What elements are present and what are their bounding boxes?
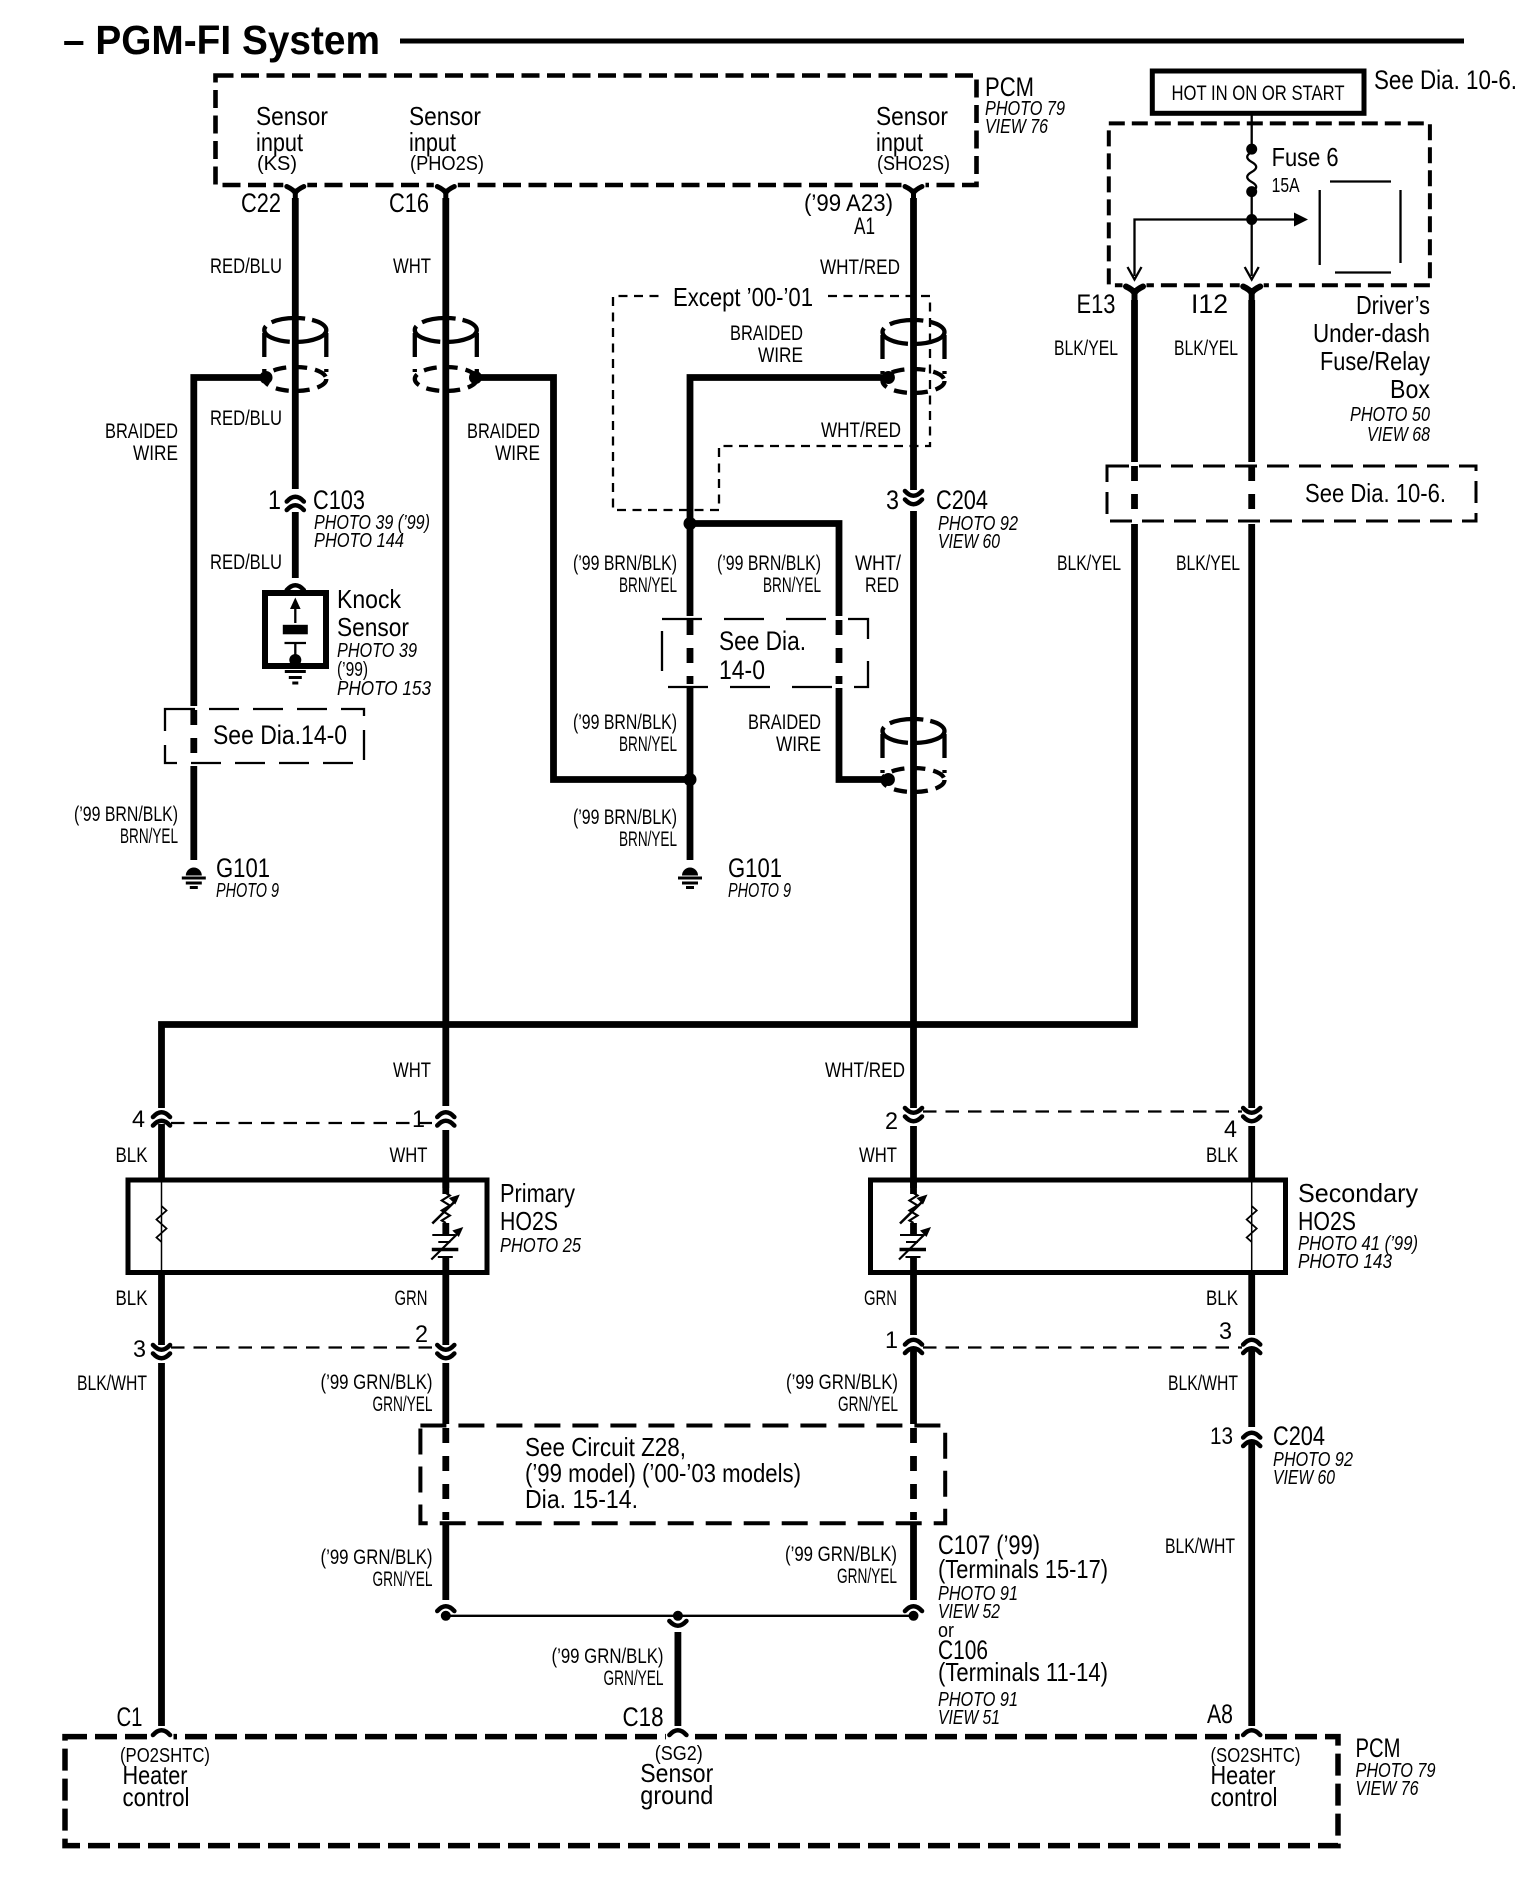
svg-text:VIEW 60: VIEW 60 — [938, 531, 1000, 553]
svg-text:BLK/YEL: BLK/YEL — [1174, 336, 1238, 360]
svg-text:(’99 GRN/BLK): (’99 GRN/BLK) — [321, 1545, 433, 1569]
svg-text:(’99 BRN/BLK): (’99 BRN/BLK) — [573, 710, 677, 734]
svg-text:2: 2 — [415, 1321, 428, 1348]
svg-text:BRN/YEL: BRN/YEL — [763, 573, 821, 597]
svg-text:control: control — [1211, 1782, 1278, 1812]
svg-text:See Dia.14-0: See Dia.14-0 — [213, 720, 347, 750]
svg-text:HO2S: HO2S — [500, 1206, 558, 1236]
svg-text:I12: I12 — [1191, 289, 1228, 319]
svg-text:15A: 15A — [1272, 175, 1301, 197]
svg-text:Under-dash: Under-dash — [1313, 318, 1430, 348]
svg-text:control: control — [123, 1782, 190, 1812]
svg-text:Except ’00-’01: Except ’00-’01 — [673, 282, 813, 312]
svg-text:Fuse 6: Fuse 6 — [1272, 142, 1339, 172]
svg-text:1: 1 — [268, 485, 281, 515]
svg-text:WHT/RED: WHT/RED — [825, 1058, 905, 1082]
svg-text:Driver’s: Driver’s — [1356, 290, 1430, 320]
svg-text:4: 4 — [1224, 1116, 1237, 1143]
svg-text:See Dia.: See Dia. — [719, 626, 806, 656]
svg-text:GRN/YEL: GRN/YEL — [373, 1567, 433, 1591]
svg-text:– PGM-FI System: – PGM-FI System — [63, 17, 380, 63]
svg-text:GRN: GRN — [395, 1286, 428, 1310]
svg-text:(’99 GRN/BLK): (’99 GRN/BLK) — [552, 1644, 664, 1668]
svg-text:VIEW 76: VIEW 76 — [1356, 1778, 1420, 1800]
svg-text:1: 1 — [412, 1106, 425, 1133]
svg-text:Dia. 15-14.: Dia. 15-14. — [525, 1484, 638, 1514]
svg-text:PHOTO 153: PHOTO 153 — [337, 678, 431, 700]
svg-text:(’99 GRN/BLK): (’99 GRN/BLK) — [321, 1370, 433, 1394]
svg-text:4: 4 — [132, 1106, 145, 1133]
svg-text:(’99 GRN/BLK): (’99 GRN/BLK) — [786, 1370, 898, 1394]
svg-text:HOT IN ON OR START: HOT IN ON OR START — [1172, 82, 1345, 105]
svg-text:GRN/YEL: GRN/YEL — [837, 1564, 897, 1588]
svg-text:GRN/YEL: GRN/YEL — [838, 1392, 898, 1416]
svg-text:RED: RED — [865, 573, 899, 597]
svg-text:(PHO2S): (PHO2S) — [410, 153, 484, 175]
svg-text:RED/BLU: RED/BLU — [210, 254, 282, 278]
svg-text:VIEW 60: VIEW 60 — [1273, 1467, 1335, 1489]
svg-text:C103: C103 — [313, 485, 365, 515]
svg-text:BLK: BLK — [116, 1143, 149, 1167]
svg-text:(’99 GRN/BLK): (’99 GRN/BLK) — [785, 1542, 897, 1566]
svg-text:BLK: BLK — [1206, 1143, 1239, 1167]
svg-text:PHOTO 144: PHOTO 144 — [314, 530, 404, 552]
svg-text:BLK/YEL: BLK/YEL — [1176, 551, 1240, 575]
svg-text:WIRE: WIRE — [133, 441, 178, 465]
svg-text:VIEW 76: VIEW 76 — [985, 116, 1049, 138]
svg-text:(SHO2S): (SHO2S) — [877, 153, 950, 175]
svg-text:(Terminals 15-17): (Terminals 15-17) — [938, 1554, 1108, 1584]
svg-text:(’99 A23): (’99 A23) — [804, 190, 893, 217]
svg-text:RED/BLU: RED/BLU — [210, 406, 282, 430]
svg-text:RED/BLU: RED/BLU — [210, 550, 282, 574]
svg-text:Fuse/Relay: Fuse/Relay — [1320, 346, 1430, 376]
svg-text:BLK: BLK — [1206, 1286, 1239, 1310]
svg-text:WHT: WHT — [393, 254, 431, 278]
svg-text:GRN/YEL: GRN/YEL — [604, 1666, 664, 1690]
svg-text:Knock: Knock — [337, 584, 402, 614]
svg-text:See Dia. 10-6.: See Dia. 10-6. — [1305, 478, 1446, 508]
svg-text:C204: C204 — [1273, 1421, 1325, 1451]
svg-text:(’99 BRN/BLK): (’99 BRN/BLK) — [717, 551, 821, 575]
svg-text:BLK: BLK — [116, 1286, 149, 1310]
svg-text:C204: C204 — [936, 485, 988, 515]
svg-text:Sensor: Sensor — [337, 612, 409, 642]
svg-text:VIEW 68: VIEW 68 — [1367, 424, 1430, 446]
svg-text:A8: A8 — [1207, 1699, 1233, 1729]
svg-text:WHT: WHT — [859, 1143, 897, 1167]
svg-text:C1: C1 — [117, 1702, 143, 1732]
svg-text:WHT: WHT — [390, 1143, 428, 1167]
svg-text:C18: C18 — [623, 1702, 664, 1732]
svg-text:(Terminals 11-14): (Terminals 11-14) — [938, 1657, 1108, 1687]
svg-text:3: 3 — [886, 485, 899, 515]
svg-text:Primary: Primary — [500, 1178, 575, 1208]
svg-text:(’99 BRN/BLK): (’99 BRN/BLK) — [573, 805, 677, 829]
svg-text:PHOTO 50: PHOTO 50 — [1350, 404, 1430, 426]
svg-text:E13: E13 — [1077, 289, 1116, 319]
svg-text:3: 3 — [133, 1336, 146, 1363]
svg-text:WHT/: WHT/ — [855, 551, 901, 575]
svg-text:2: 2 — [885, 1108, 898, 1135]
svg-text:BRN/YEL: BRN/YEL — [619, 732, 677, 756]
svg-text:WIRE: WIRE — [758, 343, 803, 367]
svg-text:BLK/YEL: BLK/YEL — [1054, 336, 1118, 360]
svg-text:WHT/RED: WHT/RED — [821, 418, 901, 442]
svg-text:BRN/YEL: BRN/YEL — [619, 827, 677, 851]
svg-text:VIEW 51: VIEW 51 — [938, 1707, 1000, 1729]
svg-text:C22: C22 — [241, 188, 281, 218]
svg-text:(’99 BRN/BLK): (’99 BRN/BLK) — [74, 802, 178, 826]
svg-text:3: 3 — [1219, 1318, 1232, 1345]
svg-text:BRAIDED: BRAIDED — [748, 710, 821, 734]
svg-text:WIRE: WIRE — [776, 732, 821, 756]
svg-text:PHOTO 9: PHOTO 9 — [728, 880, 791, 902]
svg-text:PHOTO 9: PHOTO 9 — [216, 880, 279, 902]
svg-text:HO2S: HO2S — [1298, 1206, 1356, 1236]
svg-text:WHT/RED: WHT/RED — [820, 255, 900, 279]
svg-text:BLK/WHT: BLK/WHT — [77, 1371, 147, 1395]
svg-text:BRAIDED: BRAIDED — [730, 321, 803, 345]
svg-text:(’99 BRN/BLK): (’99 BRN/BLK) — [573, 551, 677, 575]
svg-text:BLK/WHT: BLK/WHT — [1168, 1371, 1238, 1395]
svg-text:BRAIDED: BRAIDED — [467, 419, 540, 443]
svg-text:1: 1 — [885, 1327, 898, 1354]
svg-text:ground: ground — [640, 1780, 713, 1810]
svg-text:A1: A1 — [854, 213, 875, 240]
svg-text:Secondary: Secondary — [1298, 1178, 1418, 1208]
svg-text:G101: G101 — [728, 853, 782, 883]
svg-text:BLK/WHT: BLK/WHT — [1165, 1534, 1235, 1558]
svg-text:BRN/YEL: BRN/YEL — [120, 824, 178, 848]
svg-text:GRN/YEL: GRN/YEL — [373, 1392, 433, 1416]
svg-text:(KS): (KS) — [257, 153, 297, 175]
svg-text:13: 13 — [1210, 1423, 1233, 1450]
svg-text:PCM: PCM — [1356, 1733, 1401, 1763]
svg-text:PHOTO 143: PHOTO 143 — [1298, 1251, 1392, 1273]
svg-text:WHT: WHT — [393, 1058, 431, 1082]
svg-text:PHOTO 25: PHOTO 25 — [500, 1235, 582, 1257]
svg-text:WIRE: WIRE — [495, 441, 540, 465]
svg-text:C16: C16 — [389, 188, 429, 218]
svg-text:G101: G101 — [216, 853, 270, 883]
svg-text:See Dia. 10-6.: See Dia. 10-6. — [1374, 65, 1517, 95]
svg-text:BRN/YEL: BRN/YEL — [619, 573, 677, 597]
svg-text:GRN: GRN — [864, 1286, 897, 1310]
svg-text:14-0: 14-0 — [719, 655, 765, 685]
svg-text:BLK/YEL: BLK/YEL — [1057, 551, 1121, 575]
svg-text:BRAIDED: BRAIDED — [105, 419, 178, 443]
svg-text:Box: Box — [1390, 374, 1430, 404]
